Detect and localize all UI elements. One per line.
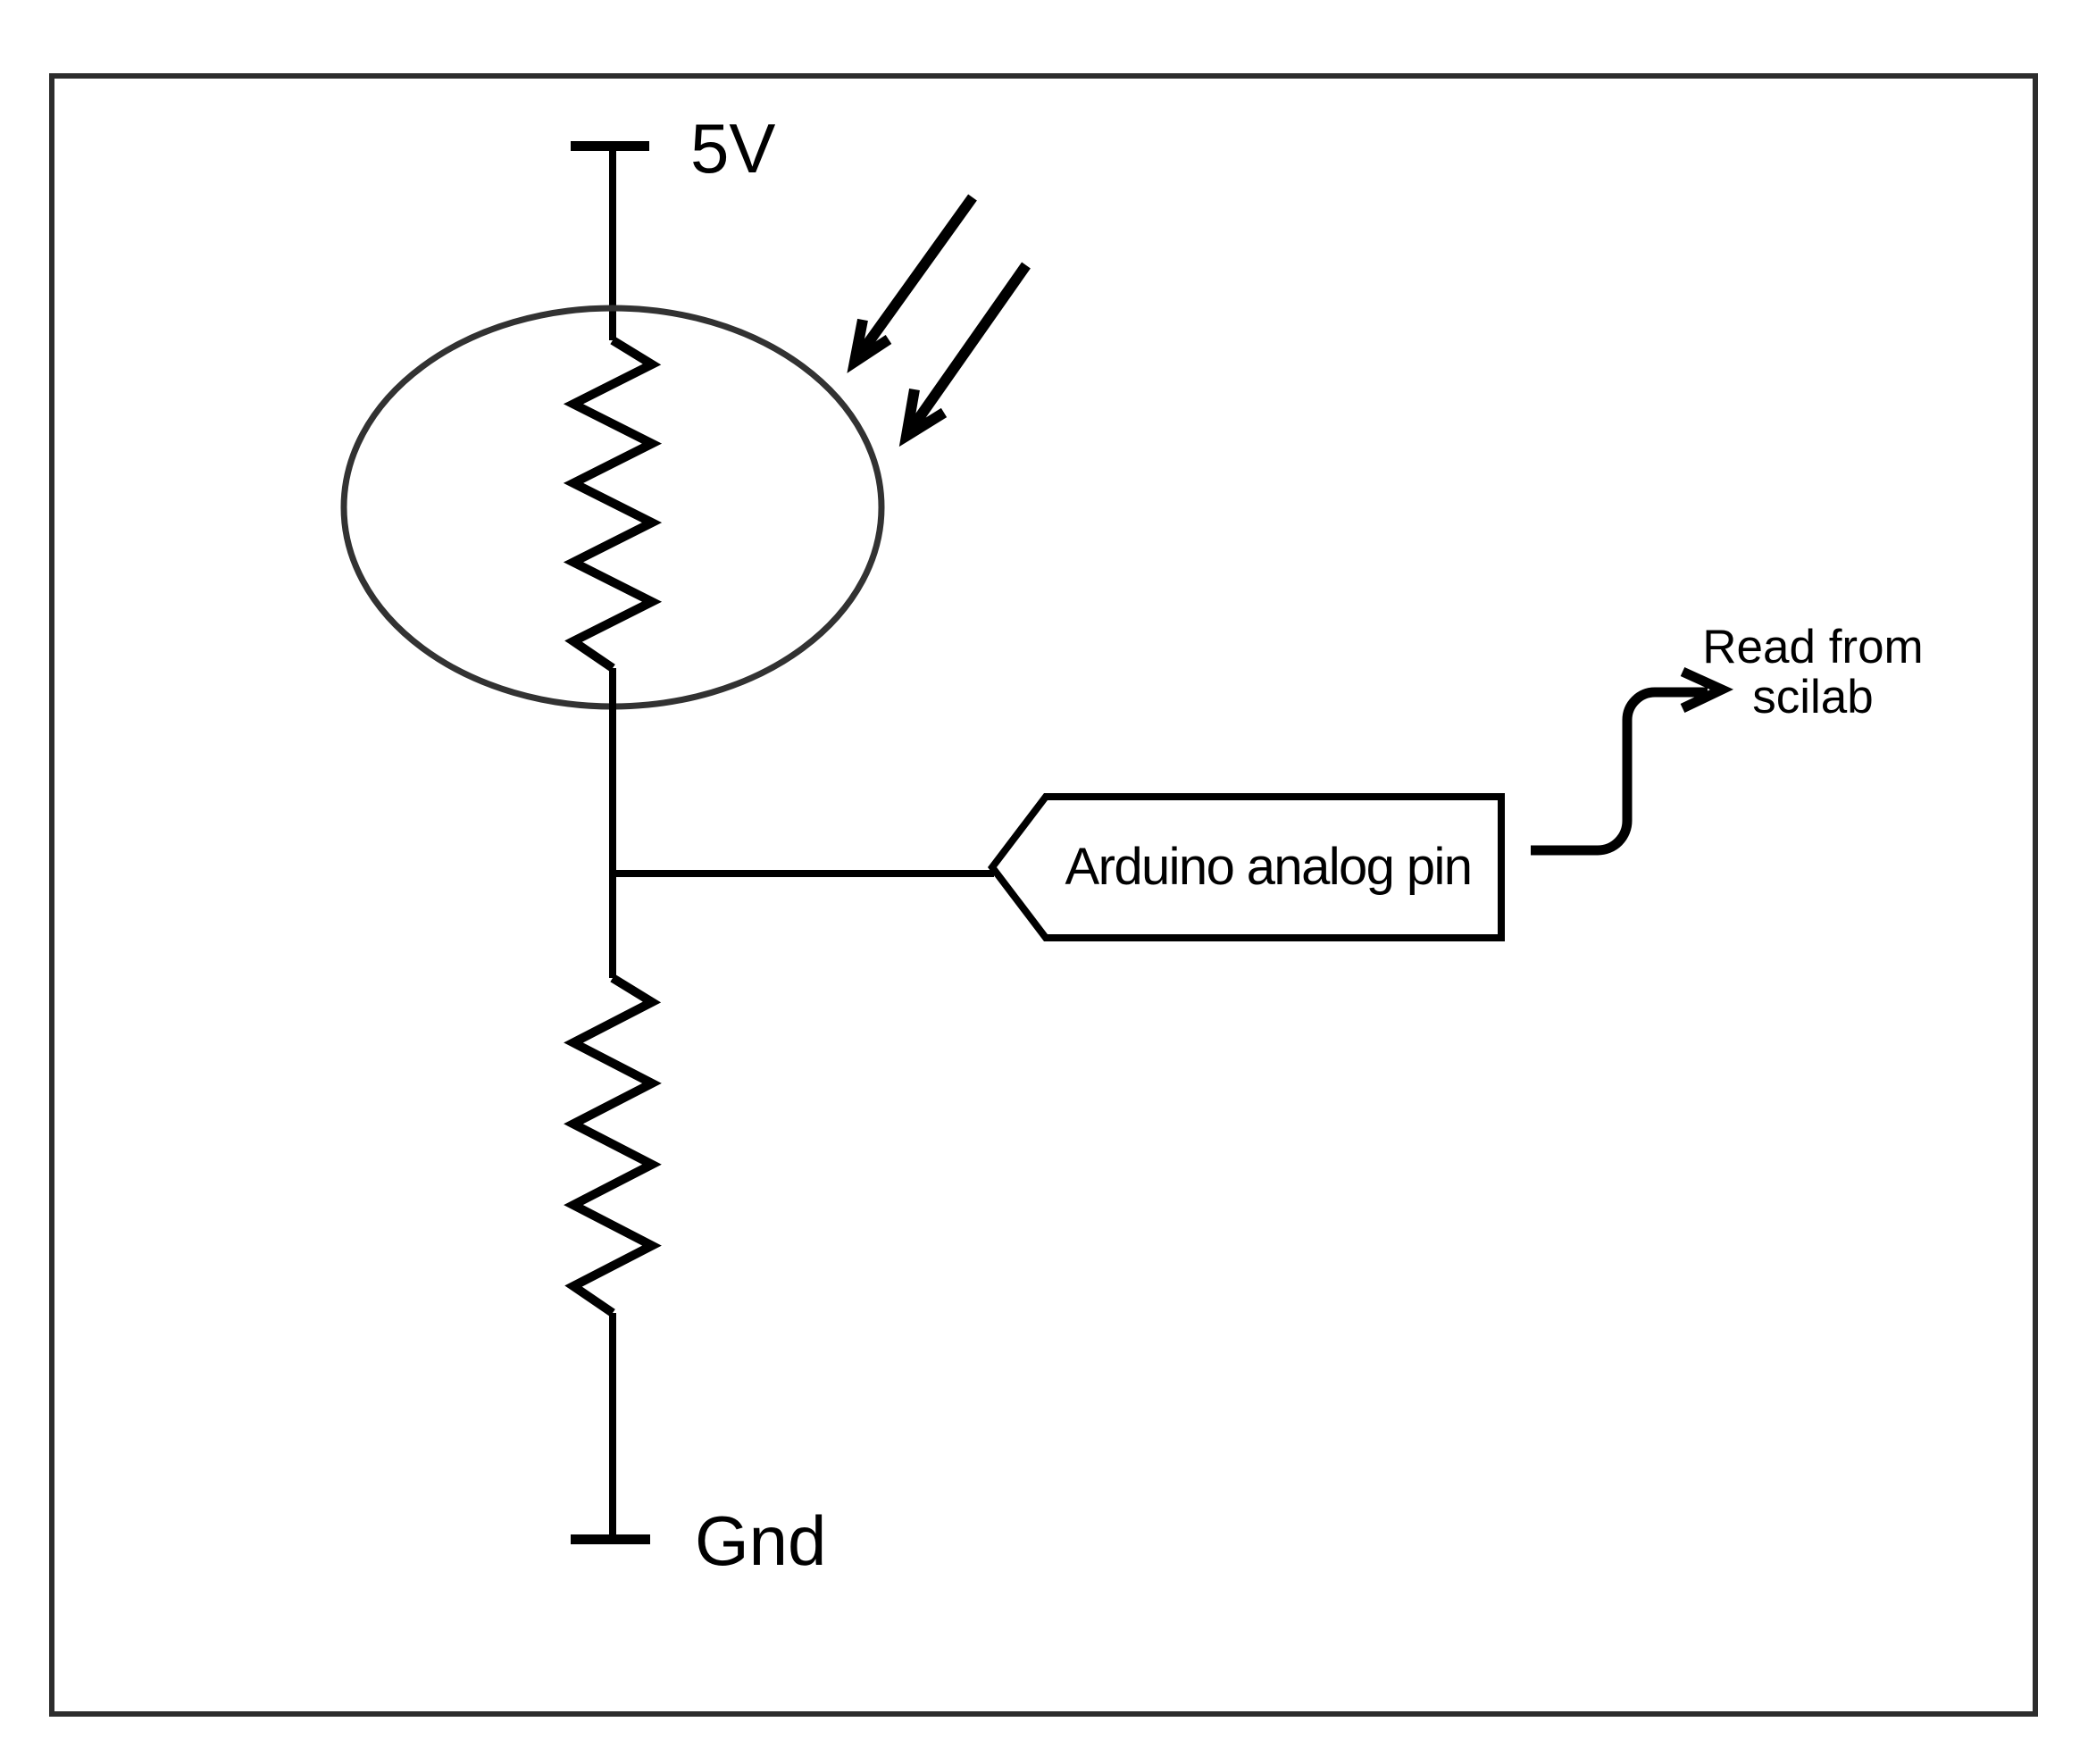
svg-text:Read from: Read from (1702, 621, 1923, 673)
svg-text:5V: 5V (690, 109, 775, 188)
svg-text:scilab: scilab (1752, 671, 1874, 723)
svg-text:Arduino analog pin: Arduino analog pin (1065, 838, 1472, 896)
svg-text:Gnd: Gnd (695, 1501, 826, 1580)
